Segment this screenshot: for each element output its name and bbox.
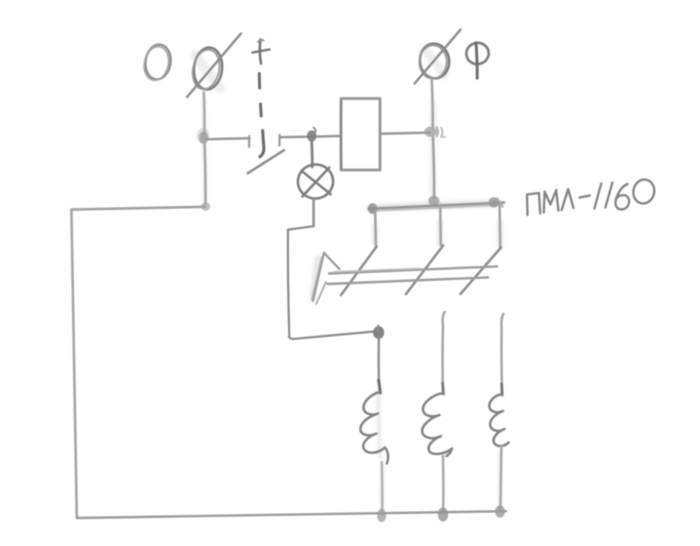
terminal O1 (circle with slash, left) <box>187 34 241 98</box>
wire coil L1 to bottom bus <box>381 462 384 515</box>
coil L1 <box>360 392 388 464</box>
wire node A down to left loop <box>204 141 205 204</box>
contact fixed stub 2 <box>439 205 442 246</box>
label t (thermal) <box>253 40 270 64</box>
wire node B down to lamp <box>310 140 313 167</box>
wire lamp down-left-down to node C <box>288 199 374 339</box>
actuator arrow <box>312 253 340 304</box>
linkage bar upper <box>329 266 497 273</box>
contact fixed stub 3 <box>498 205 501 248</box>
wire coil L2 to bottom bus <box>442 456 445 512</box>
wire left side of loop <box>71 210 76 518</box>
node C junction dot <box>373 326 384 339</box>
node F junction dot (bus left end) <box>368 203 378 214</box>
pencil haze around starter bus <box>195 50 500 512</box>
wire switch to node B and fuse <box>280 136 341 137</box>
wire node A to switch left post <box>206 138 250 139</box>
phase wire 3 upper <box>501 314 503 392</box>
letter F (phase marking) <box>465 41 491 78</box>
lamp HL (circle with X) <box>296 162 336 201</box>
bottom junction dot 2 <box>438 508 448 522</box>
switch left post tick <box>248 136 251 147</box>
bottom junction dot 3 <box>495 505 505 517</box>
wire top of left loop <box>71 207 205 210</box>
coil L3 <box>489 394 508 446</box>
wire terminal F1 down to node D <box>432 80 433 128</box>
wire node D down to node E on bus <box>433 137 434 198</box>
coil tick 2 <box>441 383 445 394</box>
bottom bus wire <box>77 511 506 518</box>
node G junction smudge (bus right end) <box>489 197 503 207</box>
moving contact blade 1 <box>341 247 377 296</box>
wire coil L3 to bottom bus <box>500 446 501 510</box>
letter O (zero/null marking) <box>141 43 173 83</box>
node B junction dot <box>307 128 317 142</box>
top bus wire of starter <box>369 203 505 211</box>
moving contact blade 2 <box>406 246 443 295</box>
phase wire 1 upper <box>377 338 380 383</box>
linkage bar lower <box>328 277 488 284</box>
label PML-1160 <box>527 178 656 215</box>
dashed linkage line of thermal switch <box>259 74 264 157</box>
switch blade <box>248 150 284 173</box>
moving contact blade 3 <box>460 248 501 295</box>
node A junction dot <box>197 128 210 144</box>
wire terminal O1 to node A <box>203 92 206 134</box>
coil L2 <box>422 393 452 456</box>
node D junction smudge <box>424 127 445 137</box>
terminal F1 (circle with slash, right) <box>415 30 461 84</box>
coil tick 3 <box>500 384 503 395</box>
node E junction smudge <box>428 196 439 206</box>
bottom junction dot 1 <box>377 509 386 522</box>
left loop top corner <box>201 202 210 210</box>
contact fixed stub 1 <box>374 211 377 245</box>
fuse FU1 rectangle <box>341 99 380 171</box>
phase wire 2 upper <box>443 312 445 390</box>
coil tick 1 <box>379 380 381 393</box>
switch right post tick <box>278 135 280 146</box>
wire fuse to node D <box>381 133 431 134</box>
